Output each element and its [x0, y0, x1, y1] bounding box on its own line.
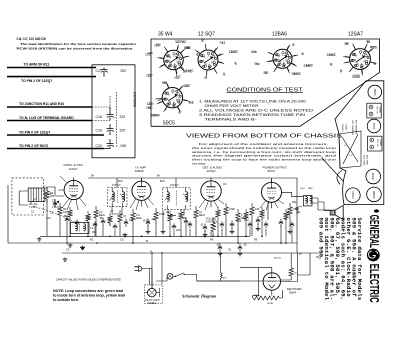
- svg-text:TUNING: TUNING: [341, 124, 343, 132]
- pilot lamp assembly dashed box: [144, 285, 162, 303]
- svg-text:0: 0: [293, 43, 295, 47]
- svg-text:C2: C2: [50, 211, 54, 215]
- svg-text:0: 0: [206, 76, 208, 80]
- capacitor C13 .05: [238, 247, 242, 249]
- svg-text:ANT. TRIM.: ANT. TRIM.: [366, 155, 369, 166]
- resistor R3 2.2MEG: [94, 210, 98, 218]
- surge resistor R13A: [253, 296, 266, 300]
- svg-text:24AC: 24AC: [329, 53, 338, 57]
- svg-text:B-: B-: [146, 239, 149, 243]
- ground symbol 13: [238, 252, 243, 256]
- lead 3 to junction R11 and R10: [7, 106, 92, 108]
- chassis tube 12SQ7: [366, 169, 381, 184]
- switch S1 on-off: [167, 273, 173, 279]
- capacitor C22: [75, 222, 79, 224]
- svg-text:S1: S1: [228, 248, 232, 252]
- svg-text:C20: C20: [96, 144, 102, 148]
- svg-text:C1: C1: [44, 186, 48, 190]
- IF transformer T1 can: [108, 188, 127, 207]
- svg-text:to inside turn of antenna loop: to inside turn of antenna loop, yellow l…: [53, 294, 125, 298]
- trimmer arrow C1: [30, 198, 36, 204]
- lead 4 to B- lug: [7, 120, 92, 122]
- svg-text:35W4: 35W4: [373, 89, 377, 96]
- pilot lamp I1: [148, 288, 157, 297]
- wire dropper: [197, 253, 280, 281]
- svg-text:470K: 470K: [229, 207, 235, 211]
- capacitor pack box K67/856: [92, 65, 135, 158]
- svg-text:TRANS.: TRANS.: [378, 106, 381, 113]
- svg-text:.05: .05: [243, 243, 247, 247]
- svg-text:35W4: 35W4: [289, 291, 297, 295]
- svg-text:.005: .005: [236, 219, 242, 223]
- resistor R10 1MEG: [236, 213, 240, 221]
- svg-text:0.5: 0.5: [253, 50, 258, 54]
- socket 12SQ7: [186, 39, 238, 80]
- chassis tube 12SA7: [346, 188, 361, 203]
- svg-text:0: 0: [302, 52, 304, 56]
- svg-text:12BA6: 12BA6: [272, 32, 287, 38]
- wire AC line to rectifier: [152, 274, 240, 288]
- resistor R17: [108, 216, 112, 223]
- svg-text:C5: C5: [120, 238, 124, 242]
- svg-text:127: 127: [148, 74, 153, 78]
- chassis tube 12BA6: [367, 187, 382, 202]
- resistor R18: [168, 214, 172, 221]
- svg-text:NOTE: Loop connections are: g: NOTE: Loop connections are: green lead: [53, 289, 123, 293]
- svg-text:to outside turn.: to outside turn.: [53, 298, 79, 302]
- dashed common line: [92, 106, 110, 108]
- ground symbol 14: [288, 230, 293, 234]
- svg-text:.02: .02: [216, 243, 220, 247]
- svg-text:then locating the loop to face: then locating the loop to face the radio…: [192, 158, 336, 162]
- svg-text:12BA6: 12BA6: [372, 191, 376, 199]
- resistor R20: [216, 210, 220, 217]
- svg-text:117 AC: 117 AC: [175, 40, 186, 44]
- svg-text:470 KC: 470 KC: [170, 183, 179, 187]
- svg-text:R13B: R13B: [268, 303, 274, 305]
- svg-text:BLU: BLU: [301, 188, 306, 190]
- svg-text:470 KC: 470 KC: [112, 183, 121, 187]
- capacitor C11 .01: [279, 222, 283, 224]
- svg-text:0: 0: [180, 110, 182, 114]
- svg-text:.05: .05: [151, 217, 155, 221]
- svg-text:120: 120: [184, 84, 189, 88]
- capacitor C17 symbol: [101, 68, 109, 77]
- B- bus: [62, 242, 297, 244]
- tube V4 output 50C5: [262, 182, 282, 202]
- socket 12SA7: [327, 40, 378, 79]
- wire IF links: [112, 200, 272, 215]
- svg-text:1. MEASURED AT 117 VOLTS LINE: 1. MEASURED AT 117 VOLTS LINE ON A 20,00…: [199, 100, 306, 104]
- svg-text:R8: R8: [210, 238, 214, 242]
- speaker LS1: [335, 205, 343, 219]
- output transformer T3: [303, 196, 312, 206]
- capacitor C19 symbol: [107, 124, 115, 135]
- trimmer arrow C2: [52, 201, 59, 208]
- ground symbol 4: [63, 258, 68, 262]
- svg-text:MEG: MEG: [199, 213, 205, 217]
- capacitor C26: [188, 224, 192, 226]
- resistor R6 100K: [154, 212, 158, 220]
- capacitor C8 .01: [203, 227, 207, 229]
- svg-text:POWER OUTPUT: POWER OUTPUT: [263, 166, 288, 170]
- socket 50C5: [147, 81, 194, 118]
- svg-text:3 READINGS TAKEN BETWEEN TUBE: 3 READINGS TAKEN BETWEEN TUBE PIN: [199, 113, 305, 117]
- GE wordmark ELECTRIC: [366, 264, 381, 303]
- svg-text:0: 0: [235, 61, 237, 65]
- svg-text:.05: .05: [63, 214, 67, 218]
- ground symbol 3: [80, 246, 85, 250]
- svg-text:R2: R2: [90, 238, 94, 242]
- svg-text:12 SQ7: 12 SQ7: [198, 32, 215, 38]
- svg-text:12SA7: 12SA7: [69, 167, 78, 171]
- svg-text:12AC: 12AC: [353, 74, 362, 78]
- capacitor C20 symbol: [104, 139, 114, 149]
- resistor R7 10MEG: [194, 210, 198, 218]
- capacitor C1 trimmer: [53, 203, 57, 205]
- svg-text:C16: C16: [96, 115, 102, 119]
- tube V2 IF amplifier 12BA6: [132, 181, 151, 200]
- junction dots: [69, 236, 71, 238]
- svg-text:C2: C2: [52, 199, 56, 203]
- svg-text:509 and 550.: 509 and 550.: [317, 218, 324, 261]
- ground symbol 12: [218, 252, 223, 256]
- svg-text:B+: B+: [91, 173, 95, 177]
- svg-text:R3: R3: [92, 230, 96, 234]
- B+ feed wire: [291, 243, 310, 275]
- B+ rail: [88, 178, 297, 243]
- tube V3 detector 12SQ7: [201, 181, 221, 201]
- svg-text:90: 90: [265, 71, 269, 75]
- svg-text:VIEWED FROM BOTTOM OF CHAS: VIEWED FROM BOTTOM OF CHASSIS: [186, 134, 343, 140]
- ground symbol 5: [80, 246, 85, 250]
- svg-text:NC: NC: [177, 75, 182, 79]
- wire V1 plate to rail: [74, 178, 272, 188]
- resistor R1 22K: [45, 191, 49, 199]
- socket 35W4: [145, 40, 199, 80]
- svg-text:35 W4: 35 W4: [158, 32, 173, 38]
- svg-text:125: 125: [148, 51, 153, 55]
- wire surge resistors: [253, 290, 283, 298]
- GE wordmark GENERAL: [366, 215, 380, 248]
- svg-text:TO PIN 6 OF 12SQ7: TO PIN 6 OF 12SQ7: [19, 130, 50, 134]
- svg-text:50C5: 50C5: [163, 121, 175, 127]
- svg-text:C17: C17: [96, 69, 102, 73]
- svg-text:90: 90: [346, 42, 350, 46]
- resistor R8 470K: [224, 207, 228, 215]
- svg-text:24AC: 24AC: [306, 63, 315, 67]
- svg-text:90: 90: [367, 40, 371, 44]
- loop antenna L1: [28, 188, 45, 201]
- svg-text:The lead identification for th: The lead identification for the four-sec…: [20, 42, 137, 46]
- resistor R21: [244, 212, 248, 219]
- wire plate to T3: [282, 192, 319, 203]
- svg-text:.05: .05: [99, 216, 103, 220]
- wire rectifier plate loop: [240, 253, 298, 296]
- svg-text:C9: C9: [223, 182, 227, 186]
- svg-text:90: 90: [257, 62, 261, 66]
- svg-text:TO JUNCTION R11 AND R10: TO JUNCTION R11 AND R10: [19, 102, 64, 106]
- svg-text:100K: 100K: [159, 212, 165, 216]
- svg-text:RCW-1019 (K67/856) can be obse: RCW-1019 (K67/856) can be observed from …: [17, 47, 134, 51]
- svg-text:10K: 10K: [63, 210, 68, 214]
- ground symbol 2: [68, 243, 73, 247]
- svg-text:R9: R9: [254, 238, 258, 242]
- svg-text:100: 100: [129, 218, 134, 222]
- resistor R2 10K: [58, 207, 62, 215]
- svg-text:50C5: 50C5: [372, 123, 376, 130]
- IF trans adjust square 1: [367, 103, 381, 118]
- svg-text:R13A: R13A: [254, 294, 260, 297]
- ground symbol 11: [256, 227, 261, 231]
- svg-text:90: 90: [164, 81, 168, 85]
- svg-text:BLK-W: BLK-W: [274, 258, 282, 260]
- svg-text:2 ALL VOLTAGES ARE D-C UNLESS: 2 ALL VOLTAGES ARE D-C UNLESS NOTED: [199, 109, 313, 113]
- chassis tube 35W4: [368, 85, 382, 99]
- capacitor C4 .01: [101, 221, 105, 223]
- svg-text:12SA7: 12SA7: [348, 32, 363, 38]
- svg-text:OUT. I.F.: OUT. I.F.: [376, 139, 378, 147]
- resistor R5 3.3MEG: [131, 213, 135, 221]
- resistor R23: [284, 212, 288, 219]
- svg-text:MEG: MEG: [136, 216, 142, 220]
- resistor R16 line dropper: [221, 271, 223, 280]
- svg-text:12SQ7: 12SQ7: [371, 172, 375, 181]
- svg-text:100: 100: [182, 216, 187, 220]
- capacitor C23: [93, 224, 97, 226]
- capacitor C16 symbol: [107, 107, 115, 120]
- svg-text:TRANS.: TRANS.: [379, 139, 382, 146]
- svg-text:C3: C3: [66, 248, 70, 252]
- wire speaker leads: [318, 198, 330, 211]
- volume control R12: [211, 223, 215, 232]
- dashed gang coupling line: [33, 206, 78, 224]
- svg-text:Schematic Diagram: Schematic Diagram: [182, 294, 217, 299]
- svg-text:0: 0: [374, 62, 376, 66]
- svg-text:TO B- LUG OF TERMINAL BOARD: TO B- LUG OF TERMINAL BOARD: [19, 116, 74, 120]
- filter resistor R14: [289, 268, 293, 276]
- svg-text:B+: B+: [157, 173, 161, 177]
- svg-text:TO PIN 2 OF 12SQ7: TO PIN 2 OF 12SQ7: [21, 79, 52, 83]
- svg-text:22K: 22K: [50, 194, 55, 198]
- IF trans adjust square 2: [368, 136, 382, 151]
- capacitor C30: [290, 224, 294, 226]
- svg-text:117AC: 117AC: [185, 69, 195, 73]
- chassis tube 50C5: [367, 119, 381, 133]
- capacitor C27: [220, 224, 224, 226]
- lead 1 to arm of R11: [7, 67, 96, 69]
- svg-text:125: 125: [156, 43, 161, 47]
- svg-text:OHMS PER VOLT METER: OHMS PER VOLT METER: [205, 104, 259, 108]
- svg-text:COND.: COND.: [345, 124, 347, 131]
- svg-text:BLK: BLK: [118, 179, 123, 183]
- ground symbol 6: [123, 233, 128, 237]
- svg-text:.005: .005: [120, 144, 127, 148]
- capacitor C12 .02: [218, 247, 222, 249]
- ground symbol 1: [37, 237, 42, 241]
- capacitor C3 .05: [65, 219, 69, 221]
- capacitor C6 .05: [146, 222, 150, 224]
- svg-text:0: 0: [330, 62, 332, 66]
- AVC bus: [40, 235, 250, 237]
- svg-text:36AC: 36AC: [153, 113, 162, 117]
- svg-text:BLK: BLK: [160, 179, 165, 183]
- ground symbol 9: [203, 233, 208, 237]
- wire AC cord: [142, 268, 152, 288]
- svg-text:220: 220: [120, 128, 126, 132]
- wire mesh column drops: [47, 199, 290, 243]
- wire loop to grid: [19, 190, 64, 205]
- chassis mounting dot: [374, 209, 379, 212]
- svg-text:R11: R11: [292, 200, 297, 204]
- antenna return wire: [8, 185, 62, 243]
- svg-text:36AC: 36AC: [294, 72, 303, 76]
- svg-text:K67/856: K67/856: [133, 92, 138, 108]
- resistor R9 150: [250, 207, 254, 215]
- svg-text:43: 43: [220, 41, 224, 45]
- resistor R19: [179, 212, 183, 219]
- svg-text:12SA7: 12SA7: [351, 191, 355, 199]
- lead 6 to pin 2 of 50C5: [7, 148, 104, 150]
- svg-text:0: 0: [203, 39, 205, 43]
- wire extra drops: [70, 220, 292, 284]
- capacitor C29: [264, 224, 268, 226]
- resistor R22: [260, 210, 264, 217]
- svg-text:TO PIN 2 OF 50C5: TO PIN 2 OF 50C5: [19, 144, 48, 148]
- svg-text:C19: C19: [96, 128, 102, 132]
- svg-text:OSC. TRIMMER: OSC. TRIMMER: [351, 120, 353, 135]
- capacitor C7 100: [184, 221, 188, 223]
- svg-text:12AC: 12AC: [231, 50, 240, 54]
- svg-text:TERMINALS AND B-: TERMINALS AND B-: [205, 118, 258, 122]
- resistor R16: [86, 214, 90, 221]
- oscillator coil L2: [71, 223, 90, 234]
- svg-text:12BA6: 12BA6: [135, 169, 144, 173]
- svg-text:C1: C1: [31, 210, 35, 214]
- surge resistor R13B: [266, 296, 279, 300]
- svg-text:OSC. TRIM.: OSC. TRIM.: [363, 155, 365, 166]
- capacitor C24: [113, 226, 117, 228]
- svg-text:5.0: 5.0: [189, 100, 194, 104]
- svg-text:.01: .01: [200, 223, 204, 227]
- tuning gang capacitor: [339, 131, 361, 168]
- capacitor C10 .05: [256, 220, 260, 222]
- svg-text:C14: C14: [46, 216, 51, 220]
- capacitor C28: [248, 224, 252, 226]
- svg-text:GENERAL: GENERAL: [366, 215, 380, 248]
- IF transformer T2 can: [163, 188, 191, 210]
- GE monogram logo: [367, 249, 380, 262]
- svg-text:ELECTRIC: ELECTRIC: [366, 264, 381, 303]
- resistor R15: [68, 210, 72, 217]
- svg-text:0: 0: [223, 72, 225, 76]
- svg-text:220: 220: [120, 115, 126, 119]
- output jack: [296, 208, 298, 210]
- svg-text:AVC: AVC: [176, 228, 181, 232]
- resistor R4 47: [118, 214, 122, 222]
- tube V1 converter 12SA7: [64, 180, 83, 199]
- leader hook to chassis: [322, 158, 344, 185]
- capacitor C25: [172, 226, 176, 228]
- svg-text:W.T.2: W.T.2: [143, 219, 150, 223]
- tube V5 rectifier 35W4: [263, 273, 280, 290]
- svg-text:18.5: 18.5: [370, 45, 376, 49]
- svg-text:.002: .002: [120, 69, 127, 73]
- svg-text:OUT. I.F.: OUT. I.F.: [375, 106, 377, 114]
- svg-text:0: 0: [341, 69, 343, 73]
- panel border: [151, 39, 380, 126]
- svg-text:ANT. TRIMMER: ANT. TRIMMER: [355, 120, 358, 135]
- svg-text:C16, C17, C19, AND C20: C16, C17, C19, AND C20: [17, 37, 47, 41]
- svg-text:50C5: 50C5: [268, 169, 276, 173]
- ground symbol 8: [161, 230, 166, 234]
- svg-text:CAPACITY VALUES IN MFD UNL: CAPACITY VALUES IN MFD UNLESS OTHERWISE …: [56, 279, 121, 282]
- wire grid leads: [47, 187, 64, 207]
- capacitor C9 .005: [230, 224, 234, 226]
- svg-text:CONTROL: CONTROL: [206, 220, 218, 223]
- lead 5 to pin 6 of 12SQ7: [7, 134, 104, 136]
- power plug: [139, 266, 142, 272]
- chassis layout outline: [335, 81, 384, 205]
- svg-text:ASSEM.: ASSEM.: [147, 302, 156, 305]
- svg-text:NC: NC: [149, 106, 154, 110]
- svg-text:65: 65: [184, 46, 188, 50]
- lead 2 to pin 2 of 12SQ7: [7, 76, 96, 78]
- svg-text:150: 150: [255, 207, 260, 211]
- AC heater bus: [62, 252, 322, 254]
- svg-text:12SQ7: 12SQ7: [207, 169, 217, 173]
- socket 12BA6: [251, 43, 312, 76]
- svg-text:TO ARM OF R11: TO ARM OF R11: [24, 63, 50, 67]
- capacitor C5 100: [124, 222, 128, 224]
- ground symbol 7: [146, 230, 151, 234]
- resistor R11 150K: [288, 207, 292, 215]
- loop antenna dashed enclosure: [12, 178, 44, 215]
- ground symbol 10: [230, 230, 235, 234]
- tube pin stub fans: [60, 176, 284, 210]
- svg-text:RED: RED: [308, 188, 313, 190]
